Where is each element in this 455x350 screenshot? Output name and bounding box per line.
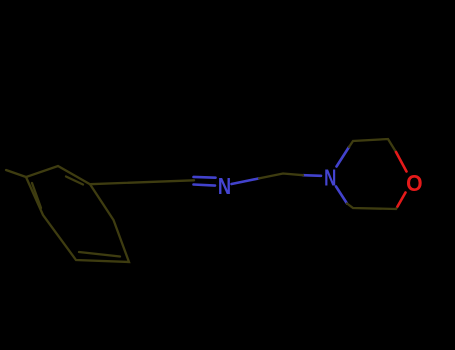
svg-text:N: N: [218, 174, 231, 200]
svg-text:N: N: [324, 165, 336, 191]
svg-text:O: O: [406, 170, 422, 196]
